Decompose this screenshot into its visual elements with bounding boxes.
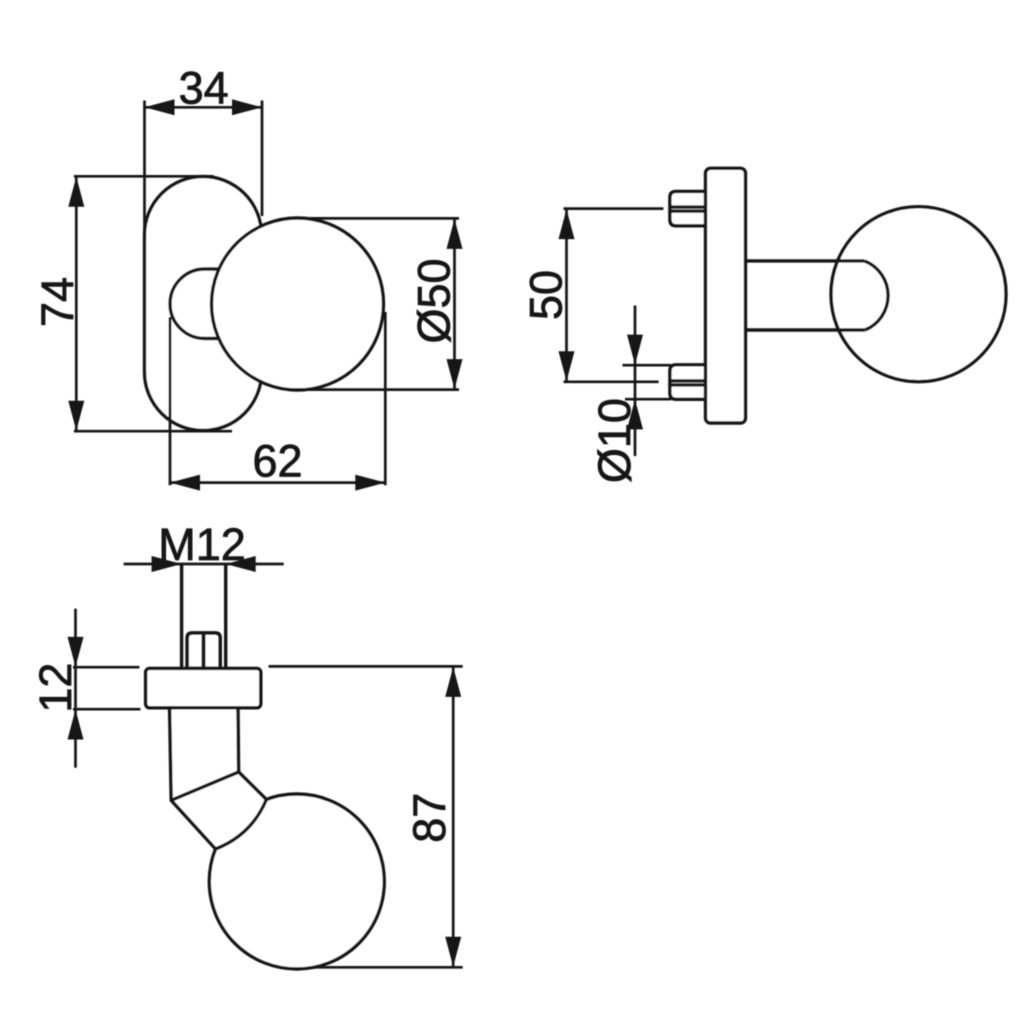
dim 74 top arrowhead: [68, 177, 84, 207]
dim 34 right arrowhead: [232, 99, 262, 115]
svg-text:M12: M12: [158, 519, 246, 570]
dim diameter 50 bottom extension line: [291, 388, 459, 391]
dim 12 dimension line: [74, 609, 77, 768]
dim diameter 50 bottom arrowhead: [447, 359, 463, 389]
threaded rod left line (bottom view): [180, 565, 183, 669]
knob ball (bottom view): [209, 794, 384, 969]
dim diameter 50 top extension line: [304, 217, 459, 220]
dim 87 dimension line: [452, 666, 455, 967]
mounting plate (side view): [706, 168, 746, 423]
svg-text:12: 12: [30, 663, 81, 713]
dim diameter 10 bottom extension line: [625, 398, 671, 401]
dim diameter 50 dimension line: [453, 218, 456, 389]
neck cylinder top line (side view): [746, 259, 865, 262]
dim diameter 10 upper arrowhead: [627, 335, 643, 365]
dim 62 right arrowhead: [355, 475, 385, 491]
dim 87 top extension line: [269, 665, 463, 668]
dim 12 lower arrowhead: [68, 710, 84, 740]
dim diameter 10 top extension line: [623, 364, 672, 367]
svg-text:50: 50: [520, 270, 571, 320]
lower stud thread lines: [670, 379, 706, 382]
dim 50 bottom extension line: [564, 380, 659, 383]
dim 62 right extension line: [384, 312, 387, 485]
dim 34 left extension line: [143, 101, 146, 241]
dim 34 dimension line: [145, 106, 263, 109]
neck-to-ball junction arc (side view): [865, 261, 888, 330]
dim 12 top extension line: [73, 666, 139, 669]
neck cylinder bottom line (side view): [746, 328, 866, 331]
dim 74 dimension line: [75, 176, 78, 431]
svg-text:Ø10: Ø10: [589, 398, 640, 483]
dim 87 bottom arrowhead: [445, 937, 461, 967]
dim 62 left extension line: [169, 317, 172, 485]
knob neck stub behind ball (front view): [170, 269, 290, 339]
dim M12 right arrowhead: [226, 556, 256, 572]
dim 87 bottom extension line: [310, 966, 463, 969]
dim 87 top arrowhead: [445, 667, 461, 697]
dim 12 upper arrowhead: [68, 637, 84, 667]
threaded rod right line (bottom view): [224, 565, 227, 669]
svg-text:87: 87: [404, 793, 455, 843]
dim 74 top extension line: [74, 175, 214, 178]
lower threaded stud (side view): [670, 365, 706, 400]
dim 62 left arrowhead: [170, 475, 200, 491]
dim 50 top arrowhead: [559, 209, 575, 239]
dim 12 bottom extension line: [73, 708, 140, 711]
svg-text:62: 62: [252, 436, 302, 487]
dim 50 dimension line: [565, 209, 568, 382]
svg-text:34: 34: [179, 63, 229, 114]
dim 50 bottom arrowhead: [559, 351, 575, 381]
dim 34 right extension line: [261, 101, 264, 217]
dim 74 bottom extension line: [74, 430, 232, 433]
dim M12 left arrowhead: [152, 556, 182, 572]
dim diameter 10 leader line: [634, 306, 637, 457]
knob ball (front view): [212, 218, 384, 390]
dim diameter 50 top arrowhead: [447, 219, 463, 249]
dim M12 dimension line: [124, 563, 284, 566]
svg-text:Ø50: Ø50: [409, 258, 460, 343]
dim diameter 10 lower arrowhead: [627, 399, 643, 429]
svg-text:74: 74: [32, 277, 83, 327]
angled neck outline (bottom view): [170, 710, 267, 850]
rosette oval plate (front view): [145, 177, 262, 431]
neck bend miter line (bottom view): [171, 772, 238, 800]
dim 34 left arrowhead: [145, 99, 175, 115]
upper threaded stud (side view): [670, 191, 706, 225]
knob ball (side view): [831, 207, 1006, 382]
dim 62 dimension line: [170, 481, 385, 484]
thread root detail (bottom view): [187, 633, 220, 669]
flange disc (bottom view): [146, 668, 261, 707]
dim 50 top extension line: [564, 207, 664, 210]
upper stud thread lines: [670, 205, 706, 208]
thread root centre split line: [202, 634, 205, 669]
dim 74 bottom arrowhead: [68, 401, 84, 431]
